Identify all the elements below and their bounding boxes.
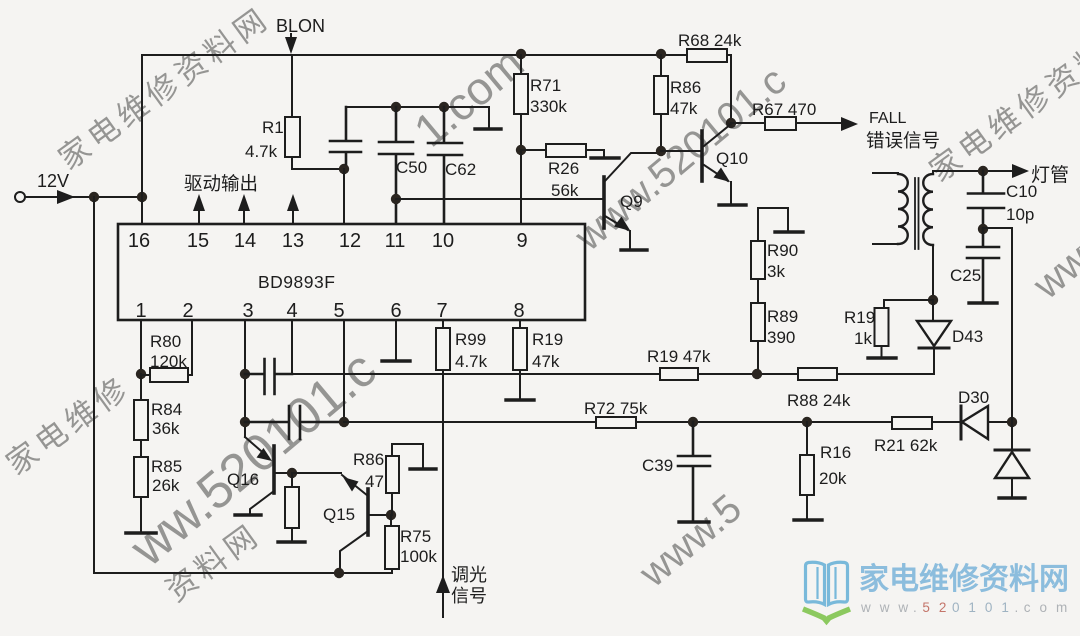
label R88 24k [787,391,851,410]
node Q15-base junction [386,510,396,520]
logo url [860,600,1070,615]
label R67 470 [752,100,816,119]
ground R85 [126,531,156,535]
node D30/right-rail junction [1007,417,1017,427]
node Q15-collector/bottom-rail junction [334,568,344,578]
resistor R86 47k [654,55,668,150]
node pin5/R72-line junction [339,417,349,427]
pin 9 label [516,230,527,252]
watermark center-left www [119,340,387,578]
logo swoosh [803,609,850,621]
label 驱动输出 drive outputs [184,173,258,194]
transistor Q15 [340,475,391,573]
node C39 junction [688,417,698,427]
label D43 [952,327,983,346]
watermark upper-center fragment [404,36,533,156]
pin 10 label [432,230,454,252]
label Q16 [227,470,259,489]
svg-text:R21 62k: R21 62k [874,436,938,455]
resistor R19 1k [875,308,889,357]
resistor R16 [800,422,814,519]
capacitor C25 [967,229,999,302]
label R72 75k [584,399,648,418]
resistor R72 [596,417,636,428]
watermark top-left [52,0,276,176]
svg-text:w w w.5 20 1 0 1.c o m: w w w.5 20 1 0 1.c o m [860,600,1070,615]
svg-text:FALL: FALL [869,110,906,127]
wire pin6 lead [395,320,397,360]
pin 1 label [135,300,146,322]
svg-text:R68 24k: R68 24k [678,31,742,50]
node pin3/C2 junction [240,417,250,427]
svg-text:9: 9 [516,230,527,252]
wire bottom rail [94,572,392,574]
label R86 47k [670,78,701,118]
ground R26 bar [591,156,619,159]
svg-text:R72 75k: R72 75k [584,399,648,418]
label R86 47 [353,450,384,491]
svg-text:8: 8 [513,300,524,322]
svg-text:驱动输出: 驱动输出 [184,173,258,194]
resistor R75 [385,515,399,573]
label 12V [37,171,69,191]
transformer T1 primary [873,173,908,244]
svg-text:R89: R89 [767,307,798,326]
arrow drive output pin14 [238,194,250,224]
svg-text:R85: R85 [151,457,182,476]
resistor R21 [892,417,932,429]
capacitor C (pin12 bypass) [330,107,361,164]
watermark bottom-left [159,517,267,609]
pin 15 label [187,230,209,252]
label R84 36k [151,400,182,438]
pin 5 label [333,300,344,322]
svg-text:BLON: BLON [276,16,325,36]
ground R19 1k [868,356,896,359]
watermark right mid fragment [1025,218,1080,308]
svg-text:R16: R16 [820,443,851,462]
capacitor pin3-pin4 [245,359,292,394]
label R75 100k [400,527,437,566]
pin 13 label [282,230,304,252]
node Q16-base junction [287,468,297,478]
svg-text:R19: R19 [532,330,563,349]
svg-text:4.7k: 4.7k [245,142,278,161]
node bus/R86 junction [656,49,666,59]
wire R72 line y422 [344,421,1012,423]
wire D43 to feedback line [933,373,935,375]
label R21 62k [874,436,938,455]
label R26 56k [548,159,579,200]
svg-text:56k: 56k [551,181,579,200]
node R71/R26/pin9 junction [516,145,526,155]
svg-text:调光: 调光 [451,565,487,585]
node C50/Q9-base junction [391,194,401,204]
resistor R80 [141,368,192,382]
wire pin9 lead [520,150,522,224]
label C25 [950,266,981,285]
bar R86 47 stub [410,467,436,470]
watermark left edge lower [0,369,137,482]
svg-text:47: 47 [365,472,384,491]
wire Q9 base line [396,198,604,200]
svg-text:D43: D43 [952,327,983,346]
label 灯管 lamp [1031,164,1069,186]
svg-text:3: 3 [242,300,253,322]
svg-text:5: 5 [333,300,344,322]
svg-text:16: 16 [128,230,150,252]
label C50 [396,158,427,177]
node lamp/C10 junction [978,166,988,176]
transistor Q16 [245,437,292,514]
node bus/C50 junction [391,102,401,112]
wire BLON stub [290,34,292,40]
wire dimming line pin7 [442,370,444,617]
svg-text:11: 11 [385,230,406,252]
svg-text:R99: R99 [455,330,486,349]
resistor R84 [134,374,148,457]
svg-text:R84: R84 [151,400,182,419]
resistor R71 [514,55,528,150]
wire Q16 base to Q15 emitter [292,472,341,474]
resistor R26 [521,144,604,157]
svg-text:12V: 12V [37,171,69,191]
end bar R16 [794,518,822,521]
watermark bottom www fragment [631,486,750,596]
resistor R89 [751,303,765,374]
wire 12V rail [25,196,142,198]
end bar C25 [969,301,997,304]
svg-text:R75: R75 [400,527,431,546]
node bus/R71 junction [516,49,526,59]
arrow dimming input [436,575,450,593]
label BLON [276,16,325,36]
wire pin2 lead [191,320,193,375]
pin 12 label [339,230,361,252]
resistor R86 47 [386,444,423,515]
svg-text:3k: 3k [767,262,785,281]
svg-text:4.7k: 4.7k [455,352,488,371]
label R16 20k [819,443,851,488]
label R19 47k horizontal [647,347,711,366]
svg-text:13: 13 [282,230,304,252]
label Q15 [323,505,355,524]
resistor R85 [134,457,148,532]
svg-text:390: 390 [767,328,795,347]
resistor R19 47k vertical [513,320,527,399]
pin 3 label [242,300,253,322]
watermark right edge [923,12,1080,188]
label R99 4.7k [455,330,488,371]
wire pin3 lead [244,320,246,437]
capacitor C10 [968,171,1004,228]
svg-text:C25: C25 [950,266,981,285]
node A 12V/ground-rail junction [89,192,99,202]
label BD9893F [258,272,335,292]
pin 7 label [436,300,447,322]
wire pin1 lead [140,320,142,374]
ground R19 vertical [506,398,534,401]
wire left vertical rail [93,197,95,573]
op-amp U1 BD9893F IC body [118,224,585,320]
wire pin4 lead [291,320,293,374]
svg-text:2: 2 [182,300,193,322]
label R85 26k [151,457,182,495]
svg-text:15: 15 [187,230,209,252]
svg-text:信号: 信号 [451,586,487,606]
node B 12V/pin16 junction [137,192,147,202]
svg-text:家电维修资料网: 家电维修资料网 [859,563,1069,596]
svg-text:D30: D30 [958,388,989,407]
svg-text:10: 10 [432,230,454,252]
label C39 [642,456,673,475]
transistor Q9 [604,153,661,249]
resistor R19 47k horizontal [660,368,698,380]
ground Q10 emitter [719,203,746,206]
node Q9-collector/Q10-base junction [656,146,666,156]
label R68 24k [678,31,742,50]
svg-text:R26: R26 [548,159,579,178]
pin 16 label [128,230,150,252]
svg-text:1k: 1k [854,329,872,348]
transformer T1 core [915,178,919,249]
svg-text:R86: R86 [353,450,384,469]
node pin3/C junction [240,369,250,379]
svg-text:C10: C10 [1006,182,1037,201]
capacitor C39 [678,422,710,521]
wire secondary return to R19 1k [882,300,934,310]
svg-text:14: 14 [234,230,256,252]
arrow 12V flow [57,190,75,204]
transistor Q10 [661,124,731,204]
capacitor C50 [379,107,413,224]
resistor below Q16 base [285,473,299,541]
resistor R90 with stub bar [751,208,803,279]
ground pin6 [382,359,410,362]
svg-text:4: 4 [286,300,297,322]
pin 14 label [234,230,256,252]
svg-text:20k: 20k [819,469,847,488]
wire pin5 lead [343,320,345,422]
ground bus end bar [475,127,501,130]
pin 8 label [513,300,524,322]
label R1 value [245,118,284,161]
svg-text:1: 1 [135,300,146,322]
svg-text:Q15: Q15 [323,505,355,524]
svg-text:C39: C39 [642,456,673,475]
diode D30 [961,406,988,439]
svg-text:330k: 330k [530,97,567,116]
diode below right rail [995,450,1029,497]
label R90 3k [767,241,798,281]
label Q10 [716,149,748,168]
label D30 [958,388,989,407]
svg-text:R86: R86 [670,78,701,97]
node R68/Q10-collector junction [726,118,736,128]
end bar C39 [679,520,709,523]
resistor R99 [436,320,450,370]
wire BLON to R1 [291,55,293,117]
svg-text:12: 12 [339,230,361,252]
arrow FALL output [841,117,858,131]
label R71 330k [530,76,567,116]
svg-text:47k: 47k [670,99,698,118]
wire pin16 feed and riser to top bus [141,55,143,224]
svg-text:R90: R90 [767,241,798,260]
diode D43 [917,300,951,374]
ground Q9 emitter [621,248,647,251]
12V input terminal [15,192,25,202]
svg-text:120k: 120k [150,352,187,371]
node R16 junction [802,417,812,427]
capacitor pin3-pin5 [245,406,344,439]
pin 2 label [182,300,193,322]
label C10 10p [1006,182,1037,224]
label R80 120k [150,332,187,371]
node C10/C25 junction [978,224,988,234]
ground Q16 emitter [235,513,261,516]
svg-text:R88 24k: R88 24k [787,391,851,410]
resistor R88 [798,368,837,380]
svg-text:7: 7 [436,300,447,322]
svg-text:R19 47k: R19 47k [647,347,711,366]
svg-text:BD9893F: BD9893F [258,272,335,292]
pin 6 label [390,300,401,322]
node R89/feedback junction [752,369,762,379]
wire top supply bus [142,55,731,123]
arrow drive output pin15 [193,194,205,224]
transformer T1 secondary [923,171,1011,300]
label R89 390 [767,307,798,347]
svg-text:R1: R1 [262,118,284,137]
resistor R67 [731,117,842,130]
label C62 [445,160,476,179]
svg-text:R19: R19 [844,308,875,327]
svg-text:C50: C50 [396,158,427,177]
label R19 47k vertical [532,330,563,371]
svg-text:错误信号: 错误信号 [866,130,940,151]
logo site name [859,563,1069,596]
arrow BLON down [285,37,297,54]
label Q9 [620,192,643,211]
svg-text:36k: 36k [152,419,180,438]
watermark right www [566,58,794,260]
wire capacitor bus [346,107,489,128]
node R1/C/pin12 junction [339,164,349,174]
capacitor C62 [428,107,462,224]
pin 4 label [286,300,297,322]
node bus/C62 junction [439,102,449,112]
label FALL error signal [866,110,940,151]
pin 11 label [385,230,406,252]
svg-text:R80: R80 [150,332,181,351]
arrow drive output pin13 [287,194,299,224]
logo book icon [806,562,848,604]
wire feedback line y374 [292,373,934,375]
label 调光信号 dimming signal [451,565,487,606]
svg-text:47k: 47k [532,352,560,371]
ground base resistor [278,540,305,543]
label R19 1k [844,308,875,348]
wire to right rail [983,228,1012,451]
svg-text:R71: R71 [530,76,561,95]
node pin1/R80/R84 junction [136,369,146,379]
svg-text:10p: 10p [1006,205,1034,224]
resistor R68 [687,49,727,62]
arrow lamp output [1012,164,1029,178]
wire R1 bottom to pin12 node [292,157,344,169]
svg-text:6: 6 [390,300,401,322]
wire R90 to R89 [757,279,759,303]
node secondary/D43 junction [928,295,938,305]
wire pin12 lead [343,169,345,224]
svg-text:C62: C62 [445,160,476,179]
end bar lower diode [999,496,1025,499]
resistor R1 [285,117,300,157]
svg-text:100k: 100k [400,547,437,566]
